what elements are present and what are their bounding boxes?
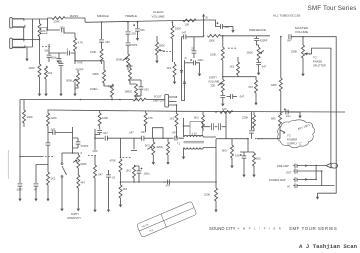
potentiometer dirty volume (222, 70, 224, 79)
resistor 220K grid vertical (39, 19, 41, 24)
resistor 220K pi out (167, 138, 169, 142)
wire poweramp sleeve (301, 185, 322, 187)
ground 667 (254, 99, 257, 105)
svg-text:.022: .022 (105, 40, 111, 44)
svg-text:TO: TO (313, 56, 317, 60)
svg-text:4K6: 4K6 (123, 187, 128, 191)
svg-text:220K: 220K (157, 145, 163, 149)
svg-text:470PF: 470PF (76, 68, 84, 72)
svg-text:SUPPLY “C”: SUPPLY “C” (287, 142, 302, 146)
wire 100K to master rail (220, 36, 270, 47)
ground k row 3 (60, 82, 62, 90)
svg-text:VOLUME: VOLUME (152, 15, 165, 19)
capacitor 425PF presence (254, 38, 259, 40)
svg-text:TREBLE: TREBLE (125, 14, 137, 18)
svg-text:220K: 220K (51, 116, 57, 120)
switch foot jack (165, 95, 169, 108)
svg-text:100K: 100K (27, 115, 33, 119)
svg-text:4K7: 4K7 (81, 181, 86, 185)
node driver2 (138, 181, 140, 183)
dashes V3 grid (228, 47, 236, 49)
resistor 470K pi (119, 159, 122, 172)
svg-text:.002: .002 (131, 32, 137, 36)
jack pre amp out sleeve (293, 169, 300, 174)
capacitor 100u dirty rail (185, 62, 194, 64)
dashes driver rail (255, 138, 263, 140)
resistor 2K2 bias (253, 152, 255, 153)
svg-text:500K: 500K (93, 72, 99, 76)
capacitor .1 bypass (62, 53, 75, 61)
svg-text:.0047: .0047 (16, 188, 23, 192)
wire dint sw top (62, 152, 73, 154)
power node drop (19, 156, 21, 158)
resistor 6K2 drop (202, 112, 204, 115)
wiper feedback to cloud (280, 130, 285, 133)
svg-text:.047: .047 (165, 184, 171, 188)
wire jack norm links (316, 166, 334, 186)
svg-text:4.7K: 4.7K (78, 41, 84, 45)
resistor 1K2 dirty (237, 57, 239, 62)
resistor 2K2 psu (47, 172, 50, 185)
svg-text:10u: 10u (286, 114, 291, 118)
ground k row 1 (39, 82, 41, 90)
resistor 100K h (207, 34, 220, 37)
resistor 470 driver (120, 182, 122, 185)
resistor 10K dropper (183, 19, 196, 22)
stamp ribbon (137, 201, 197, 237)
node pi corner (120, 157, 122, 159)
wire right loop inner (330, 48, 332, 163)
wire jack1 to grid node (13, 18, 52, 19)
capacitor box tick2 (183, 82, 186, 84)
capacitor dirty pot (220, 95, 225, 97)
ground 10u bus (298, 112, 301, 118)
resistor 4.7K slope (74, 33, 76, 38)
potentiometer 100K bass (101, 42, 103, 49)
svg-text:PRE AMP: PRE AMP (277, 164, 289, 168)
svg-text:SOUND CITY: SOUND CITY (209, 226, 236, 231)
svg-text:47K: 47K (148, 116, 153, 120)
ground input (25, 55, 28, 61)
cloud to power supply (278, 120, 315, 148)
resistor 47K drop4 (145, 111, 147, 113)
svg-text:100K: 100K (271, 83, 277, 87)
svg-text:.047: .047 (239, 95, 245, 99)
resistor grid pi (94, 155, 96, 165)
svg-text:100: 100 (235, 154, 240, 158)
potentiometer 250K clean volume2 (156, 36, 158, 42)
potentiometer 250K presence (257, 47, 260, 60)
ground clean pot (155, 57, 158, 63)
svg-text:250K: 250K (291, 50, 297, 54)
svg-text:.047: .047 (261, 65, 267, 69)
svg-text:POWER: POWER (287, 138, 297, 142)
resistor 1MEG ts1 (111, 84, 114, 97)
capacitor 10u decoupling (204, 20, 221, 27)
wire preamp sleeve (301, 170, 322, 172)
ground bias r (252, 171, 255, 177)
ground dirty pot (221, 100, 224, 106)
svg-text:500u: 500u (51, 56, 57, 60)
node pre tip (315, 165, 317, 167)
wiper master to splitter (305, 53, 312, 55)
resistor 667 dirty (255, 80, 258, 93)
svg-text:.047: .047 (141, 130, 147, 134)
svg-text:.047: .047 (98, 173, 104, 177)
wiper dint (73, 160, 77, 163)
capacitor .047 driver bus (163, 181, 166, 183)
dashes pi (123, 157, 131, 159)
ground pi c (107, 206, 110, 212)
capacitor 50u rail (137, 22, 139, 28)
ground cathode2 (174, 77, 176, 78)
wire box left (183, 118, 185, 137)
wire top rail riser (65, 18, 85, 22)
dashes dint (74, 152, 82, 154)
wire drop c2 (225, 112, 227, 139)
switch foot contacts (169, 97, 177, 105)
node bus a (80, 99, 82, 101)
wiper dirty volume (218, 83, 222, 86)
svg-text:MIDDLE: MIDDLE (97, 14, 109, 18)
wire T1 right leads (203, 137, 216, 148)
resistor 1MEG ts2 (135, 84, 138, 97)
page mark (7, 150, 9, 179)
svg-text:10K: 10K (185, 22, 190, 26)
svg-text:6K2: 6K2 (194, 116, 199, 120)
cathode caps cluster (59, 63, 64, 65)
wire poweramp tip (301, 178, 317, 180)
wire preamp tip (301, 165, 327, 167)
connector oval (331, 163, 338, 168)
wire top rail bus (85, 20, 204, 22)
potentiometer 500K dint (73, 153, 79, 155)
wire pi top rail (132, 137, 184, 139)
wiper pi bal (147, 147, 152, 150)
ground psu3 (46, 195, 49, 201)
jack pre amp out tip (293, 163, 300, 168)
wiper middle pot (123, 58, 127, 61)
svg-text:A J Tashjian Scan: A J Tashjian Scan (299, 243, 358, 250)
dashes tube V1 grid (42, 46, 50, 48)
jack power amp in sleeve (293, 183, 300, 188)
resistor 550K k2 (77, 70, 79, 73)
capacitor .022 bass (101, 22, 103, 39)
resistor 100K drop1 (23, 100, 25, 111)
svg-text:250K: 250K (159, 44, 165, 48)
capacitor psu coupling (46, 143, 51, 145)
node bus b (119, 99, 121, 101)
svg-text:T1: T1 (177, 142, 181, 146)
node bass pot tap (101, 21, 103, 23)
tube V6 box (190, 122, 203, 136)
ground k row 2 (45, 82, 47, 90)
svg-text:PHASE: PHASE (313, 60, 322, 64)
ground k row 4 (74, 82, 76, 90)
node jack2 (39, 39, 41, 41)
ground bias c (242, 171, 245, 177)
capacitor .25 stage2 (193, 37, 195, 51)
svg-text:INTENSITY: INTENSITY (67, 216, 81, 220)
tube V4 grid column (93, 129, 98, 151)
resistor 220K drop right (253, 112, 255, 115)
capacitor 10u bus (281, 111, 283, 113)
svg-text:DIRTY: DIRTY (71, 212, 79, 216)
connector triangle (326, 163, 331, 168)
svg-text:220K: 220K (242, 116, 248, 120)
wire bias branch (240, 139, 254, 152)
wire dirty links (223, 77, 256, 80)
svg-text:2K2: 2K2 (167, 66, 172, 70)
svg-text:IN: IN (287, 184, 290, 188)
svg-text:10K: 10K (135, 94, 140, 98)
capacitor bias (242, 156, 247, 158)
capacitor .047 dirty (227, 96, 231, 98)
wire ts links (104, 80, 141, 96)
node bus r2 (280, 111, 282, 113)
svg-text:470K: 470K (108, 85, 114, 89)
ground presence (256, 62, 261, 64)
node driver1 (133, 181, 135, 183)
potentiometer 500K middle (127, 34, 129, 42)
wire plate to coupling cap (48, 29, 61, 31)
svg-text:OUT: OUT (286, 171, 292, 175)
svg-text:100K: 100K (90, 50, 96, 54)
svg-text:1K2: 1K2 (230, 65, 235, 69)
svg-text:22K: 22K (211, 84, 216, 88)
switch dirty intensity (62, 153, 67, 205)
wire pi jog (153, 128, 164, 139)
svg-text:1MEG: 1MEG (125, 90, 133, 94)
svg-text:.033: .033 (144, 88, 150, 92)
wire bus left drop (19, 100, 21, 157)
resistor 10K bus right (220, 111, 233, 114)
svg-text:.022: .022 (60, 26, 66, 30)
node T1 bus (215, 181, 217, 183)
svg-text:685: 685 (271, 117, 276, 121)
svg-text:220K: 220K (54, 20, 60, 24)
capacitor 100u pi tail (137, 171, 142, 173)
svg-text:50u: 50u (140, 28, 145, 32)
capacitor .002 middle (127, 22, 129, 31)
svg-text:SPLITTER: SPLITTER (313, 64, 326, 68)
svg-text:SMF TOUR SERIES: SMF TOUR SERIES (289, 226, 337, 231)
arrow preamp tip (305, 165, 308, 167)
arrow poweramp tip (305, 178, 308, 180)
svg-text:ALL TUBES ECC83: ALL TUBES ECC83 (273, 14, 301, 18)
svg-text:POWER AMP: POWER AMP (269, 178, 286, 182)
label 220K grid (40, 28, 47, 34)
ground psu2 (34, 195, 37, 201)
ground 100u (198, 70, 201, 76)
ground 50u (136, 35, 139, 41)
svg-text:47: 47 (34, 188, 37, 192)
svg-text:2K2: 2K2 (51, 177, 56, 181)
svg-text:2K2: 2K2 (256, 157, 261, 161)
capacitor box tick1 (180, 58, 187, 72)
node pi top (162, 137, 164, 139)
svg-text:425PF: 425PF (260, 39, 268, 43)
node V1 plate (47, 29, 49, 31)
capacitor 47 psu (34, 184, 39, 186)
svg-text:.047: .047 (172, 131, 178, 135)
svg-text:100K: 100K (210, 53, 216, 57)
svg-text:220K: 220K (29, 66, 35, 70)
capacitor .047 master (289, 34, 291, 39)
wire cathode node (74, 60, 76, 62)
resistor 2K2 cathode2 (174, 62, 176, 64)
wire inner column (182, 60, 185, 101)
input jack J2 (10, 38, 25, 49)
resistor 220K series to bass (52, 17, 65, 20)
svg-text:100u: 100u (144, 172, 150, 176)
wire pi corner (120, 138, 122, 157)
svg-text:220K: 220K (175, 27, 181, 31)
transformer T1 primary (184, 135, 203, 137)
wire dint column (72, 127, 74, 153)
capacitor box out 2 (215, 126, 217, 128)
wire main bus right (48, 110, 346, 112)
resistor 2K2 pi tail (133, 165, 136, 178)
svg-text:AMPLIFIER: AMPLIFIER (238, 227, 285, 231)
resistor 220K drop2 (47, 110, 49, 113)
capacitor .02 pi (106, 175, 111, 177)
wire master to loop (291, 36, 336, 38)
wire left column long (182, 20, 204, 101)
node presence feed (222, 35, 224, 37)
ground driver (119, 201, 122, 207)
wire driver rail (216, 138, 280, 140)
B+ arrow (203, 15, 205, 20)
potentiometer pi bal (152, 138, 154, 142)
wire jack2 to node (13, 39, 40, 41)
capacitor .022 coupling (62, 28, 64, 33)
potentiometer 250K master (302, 37, 304, 45)
svg-text:.047: .047 (50, 127, 56, 131)
svg-text:10K: 10K (222, 107, 227, 111)
svg-text:500K: 500K (116, 58, 122, 62)
ground dint sw (60, 205, 63, 211)
svg-text:.047: .047 (103, 131, 109, 135)
ground pi g (93, 206, 96, 212)
wire to ground 10u (223, 26, 233, 28)
svg-text:470PF: 470PF (81, 144, 89, 148)
wire jack shunt vertical (13, 19, 33, 55)
node clean vol tap (172, 21, 174, 23)
svg-text:DIRTY: DIRTY (209, 76, 217, 80)
svg-text:500K: 500K (81, 162, 87, 166)
node pre sleeve (321, 170, 323, 172)
resistor 100K v stage (221, 47, 224, 60)
ground pi out (166, 159, 169, 165)
ground dint pot (77, 205, 80, 211)
resistor 10K bus (133, 98, 146, 101)
capacitor 500u cathode (57, 59, 62, 61)
wire driver rail right (279, 130, 281, 139)
svg-text:2K2: 2K2 (48, 71, 53, 75)
capacitor pi grid (133, 138, 135, 149)
wire main bus left (20, 99, 165, 101)
svg-text:SMF Tour Series: SMF Tour Series (308, 5, 357, 12)
svg-text:100K: 100K (209, 39, 215, 43)
svg-text:FOOT: FOOT (154, 95, 162, 99)
node B+ (203, 19, 205, 21)
capacitor .047 dint (48, 132, 53, 134)
ground 10u (231, 27, 234, 33)
svg-text:1:10: 1:10 (192, 132, 198, 136)
node pi feed (280, 36, 282, 38)
wire cap to treble node (64, 30, 75, 33)
svg-text:CLEAN: CLEAN (153, 10, 163, 14)
ground psu1 (18, 195, 21, 201)
wire driver bus (121, 181, 217, 183)
capacitor box out 1 (203, 126, 211, 128)
node driver rail (247, 138, 249, 140)
ground right loop (316, 193, 319, 199)
potentiometer 685 feedback (279, 113, 282, 126)
capacitor 50u cathode1 (49, 44, 62, 62)
svg-text:220: 220 (41, 29, 46, 33)
dashes psu (45, 156, 53, 158)
node pw tip (315, 179, 317, 181)
transformer T1 secondary (184, 148, 203, 150)
svg-text:220K: 220K (204, 193, 210, 197)
resistor 1K2 drop5 (176, 105, 178, 114)
resistor 4K7 dint (77, 175, 80, 188)
svg-text:50u: 50u (45, 49, 50, 53)
wire V1 plate riser (47, 18, 49, 30)
capacitor .0047 psu (19, 157, 21, 184)
wire right loop outer (335, 37, 337, 186)
wiper clean2 (159, 50, 165, 51)
wire psu node (20, 156, 44, 158)
capacitor .047 interstage (182, 36, 184, 38)
svg-text:.25: .25 (191, 47, 195, 51)
svg-text:500K: 500K (127, 64, 133, 68)
tone stack resistor 500K slope (103, 64, 105, 70)
ground 665 (230, 162, 233, 168)
svg-text:6K7: 6K7 (249, 85, 254, 89)
resistor 220K out (215, 182, 217, 188)
dashes V4 (88, 155, 96, 157)
wire psu right branch (36, 165, 48, 184)
wire T1 left leads (183, 148, 185, 154)
node middle tap (127, 21, 129, 23)
svg-text:500K: 500K (66, 78, 72, 82)
node dint (72, 152, 74, 154)
input jack J1 (10, 18, 25, 29)
svg-text:470PF: 470PF (130, 43, 138, 47)
svg-text:3K3: 3K3 (145, 143, 150, 147)
ground pi bal (152, 159, 155, 165)
svg-text:.02: .02 (112, 176, 116, 180)
capacitor .047 pi-in (95, 137, 104, 139)
ground T1 (182, 153, 185, 159)
wiper presence (260, 51, 264, 53)
svg-text:10u: 10u (225, 25, 230, 29)
resistor 100K drop3 (99, 111, 101, 113)
resistor 2K2 k1 (45, 66, 48, 79)
resistor 500K ts2 (129, 64, 131, 68)
svg-text:TO: TO (287, 134, 291, 138)
svg-text:6K5: 6K5 (222, 149, 227, 153)
resistor 100K pi (280, 37, 282, 78)
svg-text:100u: 100u (198, 58, 204, 62)
node driver bus (120, 181, 122, 183)
dashes V2 grid (163, 51, 171, 53)
capacitor .047 pi3 (142, 136, 144, 141)
svg-text:1K2: 1K2 (170, 117, 175, 121)
